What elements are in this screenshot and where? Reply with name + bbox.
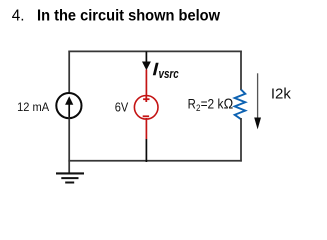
wire bottom: [68, 160, 241, 162]
wire top: [68, 50, 241, 52]
wire right lower: [240, 118, 242, 162]
current arrow Ivsrc: [142, 51, 151, 70]
wire middle lower (black): [145, 139, 147, 162]
voltage source V1 6V: [134, 96, 158, 120]
wire middle lower (red): [145, 118, 147, 139]
current arrow I2k: [254, 73, 261, 129]
label R2=2 kOhm: [188, 97, 234, 115]
svg-text:vsrc: vsrc: [159, 66, 180, 81]
svg-text:6V: 6V: [115, 100, 129, 115]
svg-text:12 mA: 12 mA: [17, 100, 50, 114]
svg-text:=2 k: =2 k: [201, 97, 225, 113]
wire left lower: [68, 118, 70, 173]
wire middle upper (red): [145, 70, 147, 97]
wire left upper: [68, 51, 70, 93]
ground: [56, 173, 84, 182]
svg-text:Ω: Ω: [224, 97, 234, 113]
current source I1: [56, 93, 81, 118]
resistor R2: [235, 90, 246, 120]
svg-text:I2k: I2k: [271, 86, 291, 103]
svg-text:R: R: [188, 97, 196, 113]
label Ivsrc: [153, 63, 179, 81]
title text: [12, 8, 220, 25]
svg-text:4.: 4.: [12, 8, 25, 25]
wire right upper: [240, 51, 242, 91]
svg-text:In the circuit shown below: In the circuit shown below: [37, 8, 220, 25]
